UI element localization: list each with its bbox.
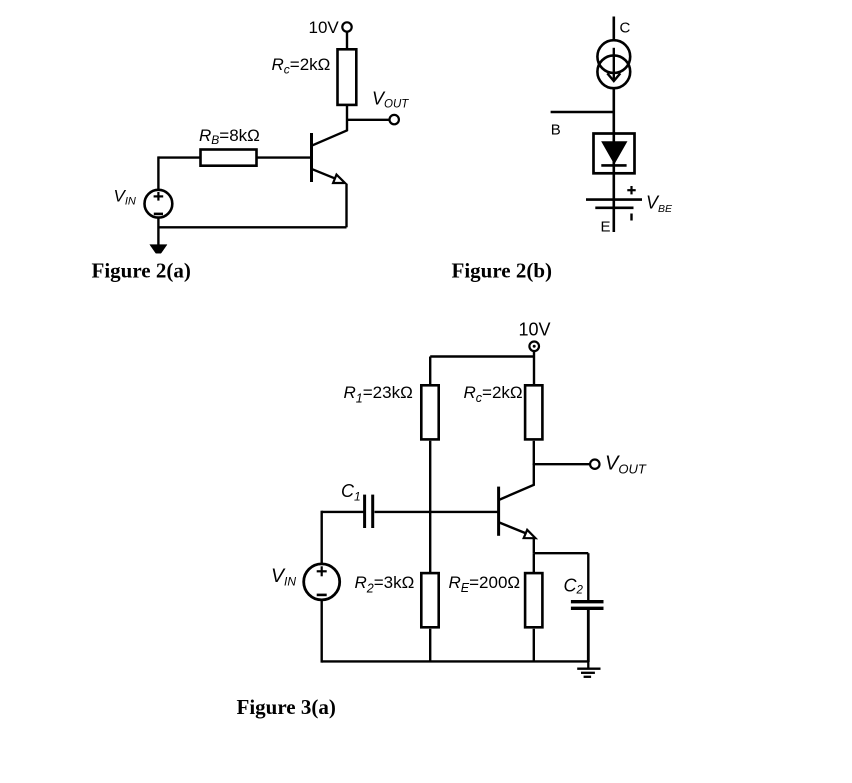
battery VBE short plate (Fig 2b)	[595, 207, 633, 210]
wire C1 to VIN (Fig 3a)	[322, 511, 365, 513]
wire base lead B (Fig 2b)	[551, 111, 614, 114]
resistor R1 body (Fig 3a)	[421, 385, 438, 439]
wire top rail to R1 (Fig 3a)	[429, 357, 431, 386]
ground symbol (Fig 3a)	[577, 661, 600, 676]
svg-text:RB=8kΩ: RB=8kΩ	[199, 126, 260, 147]
wire ground rail bottom (Fig 2a)	[158, 226, 346, 228]
plus mark of VIN (Fig 3a)	[317, 566, 327, 576]
transistor Q1 NPN (Fig 3a)	[499, 464, 536, 539]
ground symbol (Fig 2a)	[150, 245, 167, 254]
svg-text:R2=3kΩ: R2=3kΩ	[355, 573, 415, 596]
wire top rail (Fig 3a)	[430, 355, 534, 357]
wire emitter junction to C2 branch (Fig 3a)	[534, 552, 589, 554]
diode D base-emitter (Fig 2b)	[601, 142, 626, 166]
wire current source to diode box (Fig 2b)	[612, 88, 615, 133]
battery VBE long plate (Fig 2b)	[586, 198, 642, 201]
wire VIN bottom to ground rail (Fig 3a)	[321, 599, 323, 663]
minus mark of VIN (Fig 3a)	[317, 594, 327, 597]
svg-text:C1: C1	[341, 481, 361, 503]
plus mark of VBE (Fig 2b)	[627, 186, 635, 194]
wire left vertical to VIN top (Fig 3a)	[321, 511, 323, 565]
wire collector lead C (Fig 2b)	[612, 17, 615, 42]
wire RE bottom to ground rail (Fig 3a)	[533, 629, 535, 662]
svg-text:C: C	[620, 20, 631, 37]
svg-text:E: E	[601, 219, 611, 236]
source VIN circle (Fig 2a)	[145, 190, 173, 218]
wire RB left to VIN top (Fig 2a)	[157, 156, 159, 190]
svg-text:Figure 3(a): Figure 3(a)	[237, 695, 336, 719]
resistor RE body (Fig 3a)	[525, 573, 542, 627]
svg-text:VOUT: VOUT	[605, 453, 647, 477]
terminal 10V open circle (Fig 2a)	[342, 22, 351, 31]
wire base to RB (Fig 2a)	[158, 156, 311, 158]
minus mark of VIN (Fig 2a)	[154, 213, 163, 216]
wire emitter arrow to junction (Fig 3a)	[533, 539, 535, 553]
wire collector node to VOUT terminal (Fig 3a)	[534, 463, 591, 465]
resistor RC body (Fig 2a)	[338, 49, 357, 105]
wire R2 bottom to ground rail (Fig 3a)	[429, 629, 431, 662]
svg-text:Figure 2(b): Figure 2(b)	[452, 259, 553, 283]
svg-text:Rc=2kΩ: Rc=2kΩ	[272, 55, 331, 76]
svg-text:B: B	[551, 122, 561, 139]
wire base (Fig 3a)	[375, 511, 499, 513]
svg-text:VIN: VIN	[271, 565, 296, 589]
wire bottom ground rail (Fig 3a)	[322, 660, 589, 662]
resistor RB body (Fig 2a)	[201, 150, 257, 166]
resistor RC body (Fig 3a)	[525, 385, 542, 439]
terminal VOUT open circle (Fig 2a)	[390, 115, 399, 124]
svg-text:Rc=2kΩ: Rc=2kΩ	[464, 383, 523, 405]
capacitor C2 plates (Fig 3a)	[571, 602, 604, 609]
wire emitter junction to RE top (Fig 3a)	[533, 553, 535, 572]
diode box outline (Fig 2b)	[594, 134, 635, 174]
wire through diode (Fig 2b)	[612, 132, 615, 232]
minus tick of VBE (Fig 2b)	[630, 214, 632, 221]
source VIN circle (Fig 3a)	[304, 564, 340, 600]
svg-text:10V: 10V	[519, 320, 551, 340]
plus mark of VIN (Fig 2a)	[154, 192, 164, 201]
wire R1 bottom through base node to R2 top (Fig 3a)	[429, 441, 431, 572]
wire Rc bottom to collector node (Fig 3a)	[533, 441, 535, 465]
resistor R2 body (Fig 3a)	[421, 573, 438, 627]
terminal 10V circle with dot (Fig 3a)	[529, 342, 539, 352]
wire VIN bottom to ground (Fig 2a)	[157, 217, 159, 246]
svg-text:VIN: VIN	[114, 187, 136, 208]
svg-text:10V: 10V	[309, 18, 340, 37]
svg-text:R1=23kΩ: R1=23kΩ	[344, 383, 413, 406]
wire emitter down to ground rail (Fig 2a)	[345, 184, 347, 228]
terminal VOUT open circle (Fig 3a)	[590, 460, 599, 469]
svg-text:RE=200Ω: RE=200Ω	[449, 573, 521, 595]
svg-text:Figure 2(a): Figure 2(a)	[92, 259, 191, 283]
wire 10V terminal to Rc top (Fig 3a)	[533, 351, 535, 385]
wire Rc bottom to collector node	[346, 106, 348, 131]
svg-text:C2: C2	[564, 575, 584, 596]
svg-text:VBE: VBE	[646, 193, 673, 216]
svg-text:VOUT: VOUT	[372, 89, 409, 111]
wire collector node to VOUT terminal	[347, 119, 390, 121]
capacitor C1 plates (Fig 3a)	[365, 495, 373, 528]
transistor Q1 NPN (Fig 2a)	[312, 130, 348, 183]
wire 10V terminal to Rc top	[346, 32, 348, 49]
wire C2 bottom to ground (Fig 3a)	[587, 610, 590, 662]
wire C2 top stub (Fig 3a)	[587, 553, 589, 600]
current source dependent (Fig 2b)	[597, 40, 630, 88]
